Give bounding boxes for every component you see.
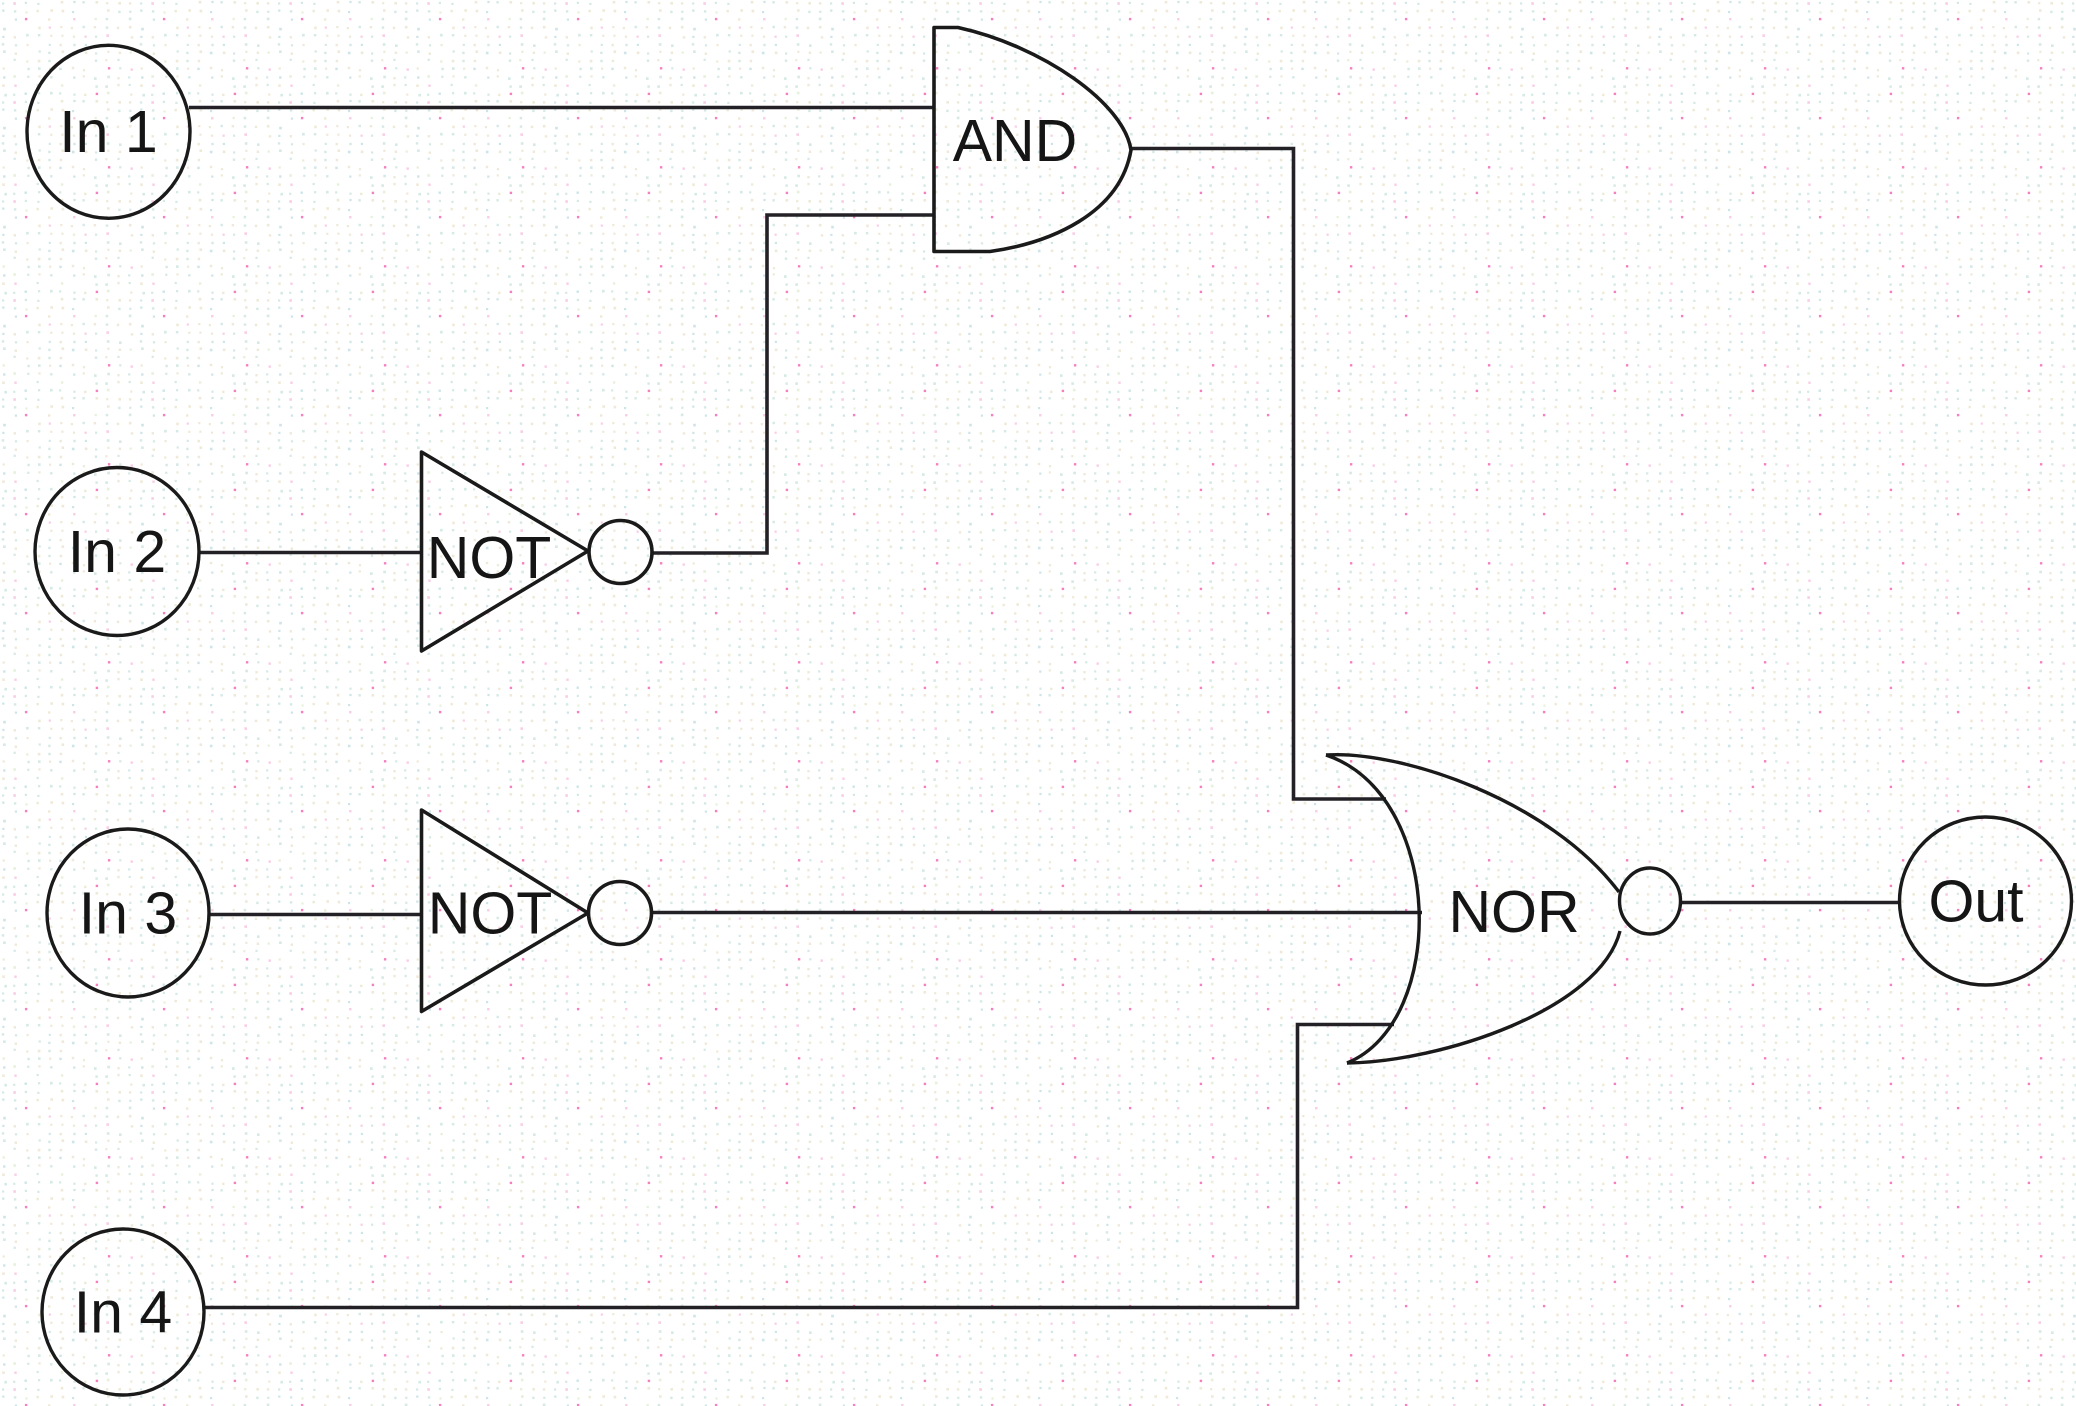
svg-text:In 2: In 2 [68,519,166,585]
svg-text:In 1: In 1 [59,99,157,165]
svg-text:NOR: NOR [1448,879,1579,945]
svg-text:Out: Out [1928,869,2023,935]
svg-text:NOT: NOT [427,525,552,591]
svg-text:In 3: In 3 [79,881,177,947]
svg-text:In 4: In 4 [74,1280,172,1346]
svg-text:NOT: NOT [428,881,553,947]
svg-text:AND: AND [953,108,1078,174]
